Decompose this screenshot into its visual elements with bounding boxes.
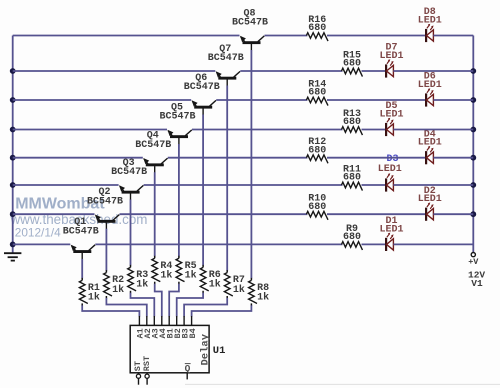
resistor R16 xyxy=(306,33,328,41)
label LED1 (D1) xyxy=(379,224,403,235)
wire row 7 emitter rail xyxy=(13,70,216,72)
label 1k (R7) xyxy=(233,284,245,296)
svg-text:1k: 1k xyxy=(233,284,245,296)
svg-text:1k: 1k xyxy=(136,279,148,291)
label Q4 xyxy=(147,131,159,142)
label Q1 xyxy=(74,217,86,228)
pin B3 of U1 xyxy=(180,316,190,339)
label BC547B (Q3) xyxy=(111,167,147,178)
wire row 2 R10 to D2 xyxy=(327,213,426,215)
op-amp U1 (IC Delay) xyxy=(130,325,209,372)
label R16 xyxy=(308,15,326,26)
svg-text:RST: RST xyxy=(142,356,152,371)
resistor R6 xyxy=(200,265,208,293)
label D7 xyxy=(385,43,397,54)
svg-text:U1: U1 xyxy=(213,345,226,357)
wire R5 to U1 pin xyxy=(169,284,179,317)
svg-text:LED1: LED1 xyxy=(418,138,442,149)
label Q2 xyxy=(98,187,110,198)
label D6 xyxy=(424,72,436,83)
wire Q7 base to R7 xyxy=(226,86,228,271)
wire row 5 D5 to +V bus xyxy=(393,129,473,131)
label 680 (R14) xyxy=(308,88,326,99)
resistor R5 xyxy=(176,256,184,284)
label LED1 (D8) xyxy=(418,16,442,27)
svg-text:BC547B: BC547B xyxy=(63,227,99,238)
resistor R15 xyxy=(342,68,363,76)
wire row 2 emitter rail xyxy=(13,213,95,215)
resistor R14 xyxy=(306,97,328,105)
wire row 3 collector to R11 xyxy=(144,184,343,186)
svg-text:BC547B: BC547B xyxy=(159,112,195,123)
pin A3 of U1 xyxy=(151,316,161,339)
label R4 xyxy=(160,261,172,272)
wire +V bus (right vertical) xyxy=(472,36,474,253)
label LED1 (D2) xyxy=(418,194,442,205)
LED D5 xyxy=(386,118,394,136)
svg-text:1k: 1k xyxy=(112,284,124,296)
wire row 3 D3 to +V bus xyxy=(393,184,473,186)
pin Q-bar of U1 xyxy=(185,363,191,380)
svg-text:680: 680 xyxy=(308,23,326,34)
wire row 5 collector to R13 xyxy=(192,129,343,131)
transistor Q4 xyxy=(143,158,167,173)
label 680 (R16) xyxy=(308,23,326,34)
resistor R1 xyxy=(79,278,87,306)
resistor R11 xyxy=(342,182,363,190)
faint page rule at bottom xyxy=(185,383,500,385)
svg-text:1k: 1k xyxy=(185,270,197,282)
wire R8 to U1 pin xyxy=(192,305,252,316)
label LED1 (D4) xyxy=(418,138,442,149)
wire R7 to U1 pin xyxy=(184,298,227,317)
transistor Q5 xyxy=(167,130,191,145)
pin A2 of U1 xyxy=(143,316,153,339)
label Q5 xyxy=(171,102,183,113)
wire row 2 D2 to +V bus xyxy=(433,213,473,215)
svg-text:LED1: LED1 xyxy=(379,110,403,121)
svg-text:+V: +V xyxy=(468,257,479,267)
node +V bus junction row 3 xyxy=(470,182,476,188)
label LED1 (D3) xyxy=(378,164,402,175)
pin B1 of U1 xyxy=(165,316,175,339)
label R2 xyxy=(112,275,124,286)
label R14 xyxy=(308,79,326,90)
label BC547B (Q5) xyxy=(159,112,195,123)
node ground-rail junction row 4 xyxy=(10,155,16,161)
label LED1 (D7) xyxy=(379,51,403,62)
label LED1 (D5) xyxy=(379,110,403,121)
label 1k (R3) xyxy=(136,279,148,291)
label 680 (R9) xyxy=(343,232,361,243)
node ground-rail junction row 7 xyxy=(10,68,16,74)
label LED1 (D6) xyxy=(418,80,442,91)
wire row 4 emitter rail xyxy=(13,157,143,159)
watermark www.thebackshed.com xyxy=(10,212,148,227)
svg-text:LED1: LED1 xyxy=(378,164,402,175)
pin B2 of U1 xyxy=(173,316,183,339)
wire row 6 emitter rail xyxy=(13,99,192,101)
wire Q5 base to R5 xyxy=(178,144,180,256)
pin RST of U1 xyxy=(142,356,152,385)
svg-text:LED1: LED1 xyxy=(379,224,403,235)
label R10 xyxy=(308,194,326,205)
svg-text:BC547B: BC547B xyxy=(232,18,268,29)
transistor Q8 xyxy=(240,36,264,51)
transistor Q3 xyxy=(119,185,143,200)
wire R1 to U1 pin xyxy=(82,305,139,316)
label 1k (R1) xyxy=(88,292,100,304)
label BC547B (Q8) xyxy=(232,18,268,29)
label 680 (R12) xyxy=(308,145,326,156)
wire row 4 R12 to D4 xyxy=(327,157,426,159)
label D2 xyxy=(424,186,436,197)
transistor Q2 xyxy=(95,215,119,230)
label R3 xyxy=(136,270,148,281)
label R1 xyxy=(88,283,100,294)
watermark MMWombat xyxy=(15,196,105,213)
label U1 xyxy=(213,345,226,357)
label BC547B (Q2) xyxy=(87,196,123,207)
svg-text:1k: 1k xyxy=(88,292,100,304)
node +V bus junction row 7 xyxy=(470,68,476,74)
wire row 5 emitter rail xyxy=(13,129,167,131)
svg-text:V1: V1 xyxy=(471,278,483,289)
wire row 4 D4 to +V bus xyxy=(433,157,473,159)
label BC547B (Q6) xyxy=(184,82,220,93)
svg-text:LED1: LED1 xyxy=(418,80,442,91)
node ground-rail junction row 2 xyxy=(10,211,16,217)
wire R2 to U1 pin xyxy=(106,298,146,317)
resistor R4 xyxy=(152,256,160,284)
wire row 8 collector to R16 xyxy=(265,35,308,37)
transistor Q1 xyxy=(71,245,95,260)
wire row 7 R15 to D7 xyxy=(362,70,387,72)
wire row 5 R13 to D5 xyxy=(362,129,387,131)
wire row 8 R16 to D8 xyxy=(327,35,426,37)
resistor R3 xyxy=(128,265,136,293)
label D3 (selected) xyxy=(386,154,398,165)
transistor Q6 xyxy=(192,100,216,115)
LED D3 xyxy=(386,173,394,191)
svg-text:BC547B: BC547B xyxy=(184,82,220,93)
svg-text:1k: 1k xyxy=(257,292,269,304)
wire Q2 base to R2 xyxy=(105,229,107,271)
label 680 (R11) xyxy=(343,173,361,184)
label D4 xyxy=(424,129,436,140)
label BC547B (Q1) xyxy=(63,227,99,238)
wire row 1 R9 to D1 xyxy=(362,243,387,245)
wire row 1 D1 to +V bus xyxy=(393,243,473,245)
svg-text:BC547B: BC547B xyxy=(135,140,171,151)
watermark date 2012/1/4 xyxy=(15,226,61,240)
LED D2 xyxy=(426,202,434,220)
wire row 8 D8 to +V bus xyxy=(433,35,473,37)
power supply +V V1 12V xyxy=(468,253,485,290)
LED D6 xyxy=(426,88,434,106)
wire row 6 collector to R14 xyxy=(216,99,307,101)
label 1k (R4) xyxy=(160,270,172,282)
label R9 xyxy=(346,224,358,235)
svg-text:2012/1/4: 2012/1/4 xyxy=(15,226,61,240)
LED D1 xyxy=(386,233,394,251)
transistor Q7 xyxy=(216,71,240,86)
svg-text:680: 680 xyxy=(308,145,326,156)
wire Q4 base to R4 xyxy=(154,172,156,256)
label R15 xyxy=(343,50,361,61)
resistor R7 xyxy=(224,270,232,298)
label Delay (U1) xyxy=(199,333,211,365)
label 1k (R6) xyxy=(209,279,221,291)
pin A1 of U1 xyxy=(136,316,146,339)
LED D8 xyxy=(426,24,434,42)
label D8 xyxy=(424,7,436,18)
svg-text:LED1: LED1 xyxy=(379,51,403,62)
wire R4 to U1 pin xyxy=(155,284,162,317)
wire row 8 emitter rail xyxy=(13,35,240,37)
label R12 xyxy=(308,137,326,148)
label D5 xyxy=(385,101,397,112)
wire row 3 emitter rail xyxy=(13,184,119,186)
label 1k (R2) xyxy=(112,284,124,296)
wire Q1 base to R1 xyxy=(81,259,83,279)
label Q3 xyxy=(123,158,135,169)
svg-text:1k: 1k xyxy=(160,270,172,282)
svg-text:LED1: LED1 xyxy=(418,16,442,27)
svg-text:BC547B: BC547B xyxy=(111,167,147,178)
svg-text:680: 680 xyxy=(343,59,361,70)
label BC547B (Q7) xyxy=(208,53,244,64)
label Q8 xyxy=(243,8,255,19)
node ground-rail junction row 6 xyxy=(10,97,16,103)
svg-text:1k: 1k xyxy=(209,279,221,291)
resistor R8 xyxy=(249,278,257,306)
resistor R12 xyxy=(306,155,328,163)
wire row 6 R14 to D6 xyxy=(327,99,426,101)
svg-text:BC547B: BC547B xyxy=(208,53,244,64)
node ground-rail junction row 1 xyxy=(10,242,16,248)
svg-text:680: 680 xyxy=(308,202,326,213)
resistor R10 xyxy=(306,211,328,219)
label 680 (R13) xyxy=(343,117,361,128)
label R11 xyxy=(343,164,361,175)
svg-text:BC547B: BC547B xyxy=(87,196,123,207)
svg-text:680: 680 xyxy=(343,173,361,184)
wire row 1 collector to R9 xyxy=(95,243,342,245)
label Q7 xyxy=(219,44,231,55)
label R5 xyxy=(185,261,197,272)
wire row 2 collector to R10 xyxy=(120,213,308,215)
wire row 7 D7 to +V bus xyxy=(393,70,473,72)
label 680 (R15) xyxy=(343,59,361,70)
pin A4 of U1 xyxy=(158,316,168,339)
wire Q6 base to R6 xyxy=(202,115,204,266)
ground xyxy=(4,253,21,260)
svg-text:680: 680 xyxy=(343,232,361,243)
node ground-rail junction row 5 xyxy=(10,127,16,133)
svg-text:B4: B4 xyxy=(188,328,198,338)
label 1k (R8) xyxy=(257,292,269,304)
label 1k (R5) xyxy=(185,270,197,282)
wire Q3 base to R3 xyxy=(130,200,132,266)
node +V bus junction row 2 xyxy=(470,211,476,217)
resistor R2 xyxy=(104,270,112,298)
label R7 xyxy=(233,275,245,286)
node +V bus junction row 5 xyxy=(470,127,476,133)
resistor R13 xyxy=(342,127,363,135)
wire R6 to U1 pin xyxy=(177,293,203,317)
wire row 6 D6 to +V bus xyxy=(433,99,473,101)
pin ST of U1 xyxy=(133,361,143,385)
node +V bus junction row 6 xyxy=(470,97,476,103)
label R6 xyxy=(209,270,221,281)
label R13 xyxy=(343,109,361,120)
wire row 1 emitter rail xyxy=(13,243,71,245)
label 680 (R10) xyxy=(308,202,326,213)
label BC547B (Q4) xyxy=(135,140,171,151)
LED D4 xyxy=(426,146,434,164)
resistor R9 xyxy=(342,242,363,250)
wire row 7 collector to R15 xyxy=(240,70,342,72)
wire ground bus (left vertical) xyxy=(12,36,14,254)
wire R3 to U1 pin xyxy=(131,293,155,317)
svg-text:Q: Q xyxy=(185,363,191,374)
svg-text:680: 680 xyxy=(308,88,326,99)
svg-text:680: 680 xyxy=(343,117,361,128)
node +V bus junction row 4 xyxy=(470,155,476,161)
label D1 xyxy=(385,216,397,227)
wire row 4 collector to R12 xyxy=(168,157,308,159)
svg-text:Delay: Delay xyxy=(199,333,211,365)
svg-text:LED1: LED1 xyxy=(418,194,442,205)
label R8 xyxy=(257,283,269,294)
node ground-rail junction row 3 xyxy=(10,182,16,188)
wire Q8 base to R8 xyxy=(250,50,252,278)
LED D7 xyxy=(386,59,394,77)
label Q6 xyxy=(195,73,207,84)
wire row 3 R11 to D3 xyxy=(362,184,387,186)
pin B4 of U1 xyxy=(188,316,198,339)
